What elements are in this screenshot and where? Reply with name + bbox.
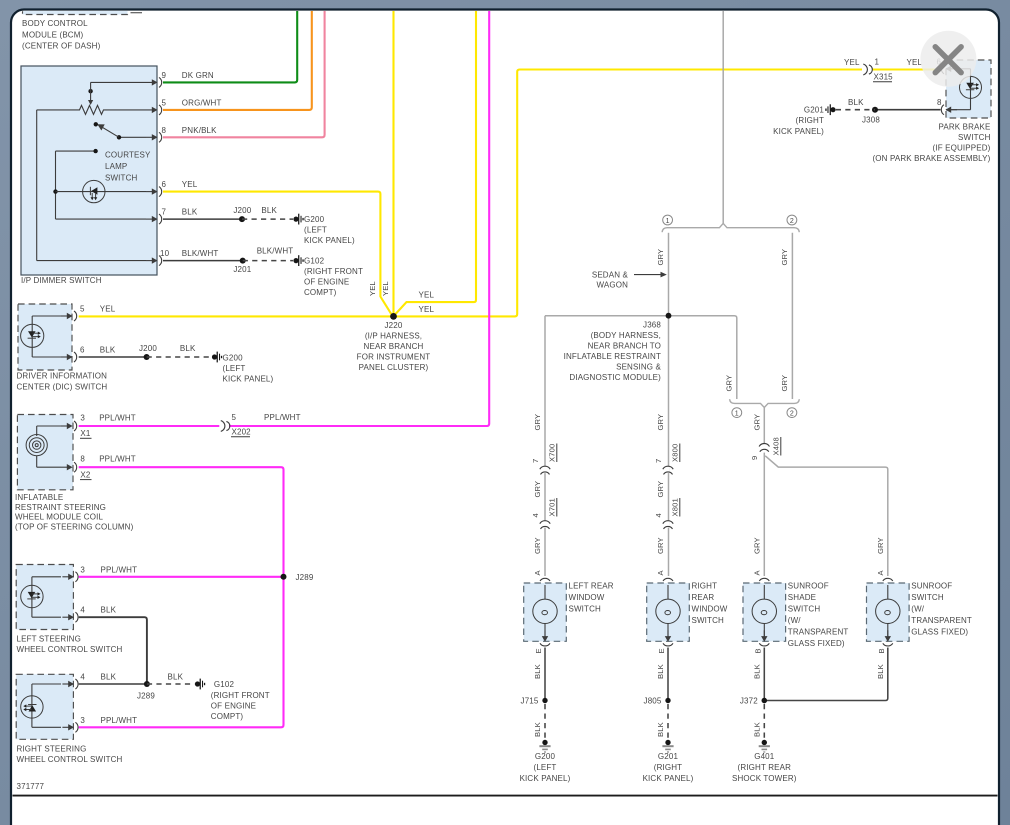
svg-text:LEFT STEERING: LEFT STEERING: [17, 634, 81, 643]
svg-text:G102: G102: [304, 257, 325, 266]
svg-text:GLASS FIXED): GLASS FIXED): [788, 639, 845, 648]
svg-text:SWITCH: SWITCH: [569, 605, 602, 614]
svg-text:B: B: [753, 648, 762, 653]
svg-text:(RIGHT: (RIGHT: [796, 116, 824, 125]
svg-text:WHEEL MODULE COIL: WHEEL MODULE COIL: [15, 513, 103, 522]
svg-text:3: 3: [80, 413, 85, 422]
svg-text:3: 3: [80, 716, 85, 725]
svg-text:COMPT): COMPT): [211, 712, 244, 721]
svg-text:X700: X700: [548, 444, 557, 462]
svg-text:J805: J805: [644, 697, 662, 706]
svg-text:SWITCH: SWITCH: [911, 593, 944, 602]
svg-text:(BODY HARNESS,: (BODY HARNESS,: [591, 331, 661, 340]
svg-text:BLK: BLK: [101, 673, 117, 682]
svg-text:CENTER (DIC) SWITCH: CENTER (DIC) SWITCH: [17, 382, 108, 391]
svg-text:G102: G102: [214, 680, 235, 689]
svg-text:GRY: GRY: [876, 537, 885, 554]
svg-text:G200: G200: [535, 752, 556, 761]
svg-text:J289: J289: [296, 573, 314, 582]
svg-text:RIGHT STEERING: RIGHT STEERING: [17, 745, 87, 754]
svg-text:8: 8: [937, 98, 942, 107]
svg-text:SHOCK TOWER): SHOCK TOWER): [732, 774, 797, 783]
svg-text:BLK: BLK: [261, 206, 277, 215]
svg-text:3: 3: [80, 565, 85, 574]
svg-text:INFLATABLE: INFLATABLE: [15, 493, 63, 502]
svg-text:YEL: YEL: [907, 58, 923, 67]
svg-text:SWITCH: SWITCH: [692, 616, 725, 625]
svg-text:BODY CONTROL: BODY CONTROL: [22, 19, 88, 28]
svg-text:BLK: BLK: [533, 664, 542, 679]
svg-text:A: A: [656, 570, 665, 576]
svg-text:RIGHT: RIGHT: [692, 582, 718, 591]
svg-text:(RIGHT REAR: (RIGHT REAR: [738, 763, 792, 772]
svg-text:GRY: GRY: [656, 414, 665, 431]
svg-text:GRY: GRY: [656, 481, 665, 498]
svg-text:PPL/WHT: PPL/WHT: [101, 716, 138, 725]
svg-text:GRY: GRY: [725, 375, 734, 392]
svg-text:YEL: YEL: [368, 281, 377, 296]
svg-text:G201: G201: [658, 752, 679, 761]
svg-text:1: 1: [666, 218, 670, 225]
svg-text:2: 2: [790, 218, 794, 225]
svg-text:1: 1: [875, 58, 880, 67]
svg-text:2: 2: [790, 411, 794, 418]
svg-text:(LEFT: (LEFT: [223, 364, 246, 373]
svg-text:LEFT REAR: LEFT REAR: [569, 582, 614, 591]
svg-text:TRANSPARENT: TRANSPARENT: [911, 616, 972, 625]
svg-text:WAGON: WAGON: [596, 281, 628, 290]
svg-text:(W/: (W/: [788, 616, 802, 625]
svg-text:DRIVER INFORMATION: DRIVER INFORMATION: [17, 372, 108, 381]
svg-text:(W/: (W/: [911, 605, 925, 614]
svg-text:KICK PANEL): KICK PANEL): [643, 774, 694, 783]
svg-text:BLK: BLK: [101, 606, 117, 615]
svg-text:E: E: [534, 648, 543, 653]
svg-text:X315: X315: [874, 73, 894, 82]
svg-text:SUNROOF: SUNROOF: [788, 582, 829, 591]
svg-text:BLK: BLK: [182, 208, 198, 217]
svg-text:SHADE: SHADE: [788, 593, 816, 602]
svg-text:TRANSPARENT: TRANSPARENT: [788, 628, 849, 637]
svg-text:KICK PANEL): KICK PANEL): [304, 236, 355, 245]
svg-text:X2: X2: [80, 470, 90, 479]
svg-text:BLK/WHT: BLK/WHT: [182, 249, 219, 258]
svg-text:BLK: BLK: [100, 346, 116, 355]
svg-text:(RIGHT FRONT: (RIGHT FRONT: [304, 267, 363, 276]
svg-text:4: 4: [80, 606, 85, 615]
svg-text:7: 7: [162, 208, 167, 217]
svg-text:J201: J201: [233, 265, 251, 274]
svg-text:(ON PARK BRAKE ASSEMBLY): (ON PARK BRAKE ASSEMBLY): [872, 154, 990, 163]
svg-text:J200: J200: [139, 344, 157, 353]
svg-text:PNK/BLK: PNK/BLK: [182, 126, 217, 135]
svg-text:BLK: BLK: [752, 664, 761, 679]
svg-text:WHEEL CONTROL SWITCH: WHEEL CONTROL SWITCH: [17, 645, 123, 654]
svg-text:SWITCH: SWITCH: [958, 133, 991, 142]
svg-text:BLK: BLK: [848, 98, 864, 107]
svg-text:X800: X800: [671, 444, 680, 462]
svg-text:COMPT): COMPT): [304, 288, 337, 297]
svg-text:B: B: [877, 648, 886, 653]
svg-text:YEL: YEL: [844, 58, 860, 67]
svg-text:GLASS FIXED): GLASS FIXED): [911, 628, 968, 637]
svg-text:GRY: GRY: [752, 537, 761, 554]
svg-text:LAMP: LAMP: [105, 162, 127, 171]
svg-text:NEAR BRANCH TO: NEAR BRANCH TO: [588, 342, 661, 351]
svg-text:9: 9: [162, 71, 167, 80]
svg-text:371777: 371777: [17, 782, 45, 791]
svg-text:J715: J715: [521, 697, 539, 706]
svg-text:DK GRN: DK GRN: [182, 71, 214, 80]
svg-text:YEL: YEL: [419, 291, 435, 300]
svg-text:J289: J289: [137, 692, 155, 701]
svg-text:GRY: GRY: [533, 481, 542, 498]
svg-text:PPL/WHT: PPL/WHT: [264, 413, 301, 422]
svg-text:5: 5: [80, 305, 85, 314]
svg-text:7: 7: [531, 459, 540, 463]
svg-text:(RIGHT FRONT: (RIGHT FRONT: [211, 691, 270, 700]
svg-text:GRY: GRY: [780, 249, 789, 266]
svg-text:E: E: [657, 648, 666, 653]
svg-text:PANEL CLUSTER): PANEL CLUSTER): [359, 363, 429, 372]
svg-text:X1: X1: [80, 429, 90, 438]
svg-text:BLK: BLK: [168, 673, 184, 682]
svg-text:YEL: YEL: [182, 180, 198, 189]
svg-text:PPL/WHT: PPL/WHT: [99, 455, 136, 464]
svg-text:A: A: [752, 570, 761, 576]
svg-text:X801: X801: [671, 498, 680, 516]
svg-text:(I/P HARNESS,: (I/P HARNESS,: [365, 332, 422, 341]
svg-text:8: 8: [162, 126, 167, 135]
svg-text:J200: J200: [233, 206, 251, 215]
svg-text:5: 5: [232, 413, 237, 422]
svg-text:X408: X408: [772, 437, 781, 455]
svg-text:5: 5: [162, 99, 167, 108]
svg-text:INFLATABLE RESTRAINT: INFLATABLE RESTRAINT: [564, 352, 661, 361]
svg-text:BLK: BLK: [752, 722, 761, 737]
svg-text:(IF EQUIPPED): (IF EQUIPPED): [933, 144, 991, 153]
svg-text:6: 6: [80, 346, 85, 355]
svg-text:WINDOW: WINDOW: [569, 593, 605, 602]
svg-text:8: 8: [80, 455, 85, 464]
svg-text:A: A: [876, 570, 885, 576]
svg-text:OF ENGINE: OF ENGINE: [304, 278, 349, 287]
svg-text:RESTRAINT STEERING: RESTRAINT STEERING: [15, 503, 106, 512]
svg-text:PPL/WHT: PPL/WHT: [101, 565, 138, 574]
svg-text:4: 4: [654, 513, 663, 517]
svg-text:YEL: YEL: [419, 305, 435, 314]
svg-text:SWITCH: SWITCH: [105, 173, 138, 182]
svg-text:X701: X701: [548, 498, 557, 516]
svg-text:PARK BRAKE: PARK BRAKE: [938, 123, 990, 132]
svg-text:WHEEL CONTROL SWITCH: WHEEL CONTROL SWITCH: [17, 755, 123, 764]
svg-text:OF ENGINE: OF ENGINE: [211, 702, 256, 711]
svg-text:4: 4: [531, 513, 540, 517]
svg-text:YEL: YEL: [100, 305, 116, 314]
svg-text:(RIGHT: (RIGHT: [654, 763, 682, 772]
svg-text:GRY: GRY: [780, 375, 789, 392]
svg-text:1: 1: [735, 411, 739, 418]
svg-text:G200: G200: [223, 354, 244, 363]
svg-text:BLK: BLK: [656, 722, 665, 737]
svg-text:G200: G200: [304, 215, 325, 224]
svg-text:(TOP OF STEERING COLUMN): (TOP OF STEERING COLUMN): [15, 522, 134, 531]
svg-text:(LEFT: (LEFT: [304, 226, 327, 235]
svg-text:J220: J220: [385, 321, 403, 330]
svg-text:GRY: GRY: [656, 537, 665, 554]
svg-text:X202: X202: [232, 428, 252, 437]
svg-text:BLK: BLK: [656, 664, 665, 679]
svg-text:SENSING &: SENSING &: [616, 363, 661, 372]
svg-text:FOR INSTRUMENT: FOR INSTRUMENT: [357, 353, 431, 362]
svg-text:GRY: GRY: [533, 537, 542, 554]
svg-text:GRY: GRY: [533, 414, 542, 431]
svg-text:DIAGNOSTIC MODULE): DIAGNOSTIC MODULE): [569, 373, 661, 382]
svg-text:COURTESY: COURTESY: [105, 150, 151, 159]
svg-text:6: 6: [162, 180, 167, 189]
svg-text:9: 9: [750, 456, 759, 460]
svg-text:J368: J368: [643, 321, 661, 330]
svg-text:SUNROOF: SUNROOF: [911, 582, 952, 591]
svg-text:SEDAN &: SEDAN &: [592, 270, 629, 279]
svg-text:KICK PANEL): KICK PANEL): [520, 774, 571, 783]
svg-text:REAR: REAR: [692, 593, 715, 602]
svg-text:KICK PANEL): KICK PANEL): [223, 375, 274, 384]
svg-text:J372: J372: [740, 697, 758, 706]
svg-text:YEL: YEL: [381, 281, 390, 296]
svg-text:BLK: BLK: [876, 664, 885, 679]
svg-text:7: 7: [654, 459, 663, 463]
svg-text:KICK PANEL): KICK PANEL): [773, 127, 824, 136]
svg-text:GRY: GRY: [656, 249, 665, 266]
svg-text:BLK: BLK: [533, 722, 542, 737]
svg-text:MODULE (BCM): MODULE (BCM): [22, 30, 84, 39]
svg-text:PPL/WHT: PPL/WHT: [99, 413, 136, 422]
svg-text:GRY: GRY: [753, 414, 762, 431]
svg-text:4: 4: [80, 673, 85, 682]
svg-text:(LEFT: (LEFT: [534, 763, 557, 772]
svg-text:BLK: BLK: [180, 344, 196, 353]
svg-text:(CENTER OF DASH): (CENTER OF DASH): [22, 42, 101, 51]
svg-text:SWITCH: SWITCH: [788, 605, 821, 614]
svg-text:NEAR BRANCH: NEAR BRANCH: [364, 342, 424, 351]
svg-text:BLK/WHT: BLK/WHT: [257, 246, 294, 255]
svg-text:I/P DIMMER SWITCH: I/P DIMMER SWITCH: [21, 276, 102, 285]
svg-text:WINDOW: WINDOW: [692, 605, 728, 614]
svg-text:G401: G401: [754, 752, 775, 761]
svg-text:ORG/WHT: ORG/WHT: [182, 99, 222, 108]
svg-text:A: A: [533, 570, 542, 576]
svg-text:10: 10: [160, 249, 170, 258]
svg-text:J308: J308: [862, 116, 880, 125]
svg-text:G201: G201: [804, 106, 825, 115]
